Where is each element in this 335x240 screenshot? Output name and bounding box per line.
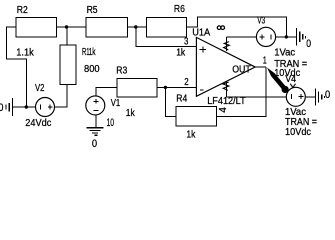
V3 minus tick: [270, 34, 272, 39]
resistor R6: [146, 18, 186, 38]
resistor R4: [176, 106, 217, 126]
svg-text:2: 2: [184, 77, 189, 88]
wire V3 right to ground: [276, 36, 297, 38]
op-amp V- power pin zigzag: [223, 82, 229, 90]
ground symbol right of V3 (net 0): [297, 28, 306, 45]
svg-text:3: 3: [184, 36, 189, 47]
V4 minus tick: [290, 94, 292, 99]
svg-text:V4: V4: [285, 74, 296, 85]
svg-text:R3: R3: [116, 65, 127, 76]
wire R6 right up and over to V3 node: [187, 17, 287, 37]
mouse cursor pointer: [267, 68, 289, 93]
V1 plus sign: [94, 99, 99, 104]
small v mark under V4 label: [290, 84, 295, 88]
junction node dot B R5/R6/pin3: [134, 25, 137, 28]
svg-text:V1: V1: [111, 98, 121, 109]
V3 plus sign: [260, 35, 265, 40]
resistor R2: [16, 18, 57, 38]
svg-text:0: 0: [306, 38, 311, 50]
svg-text:1Vac: 1Vac: [274, 48, 295, 59]
op-amp U1A triangle: [196, 37, 255, 96]
svg-text:V3: V3: [257, 16, 265, 27]
V2 minus tick: [39, 105, 41, 110]
wire R3 right to op-amp pin 2: [157, 86, 197, 88]
wire left ground to V2 minus: [12, 106, 35, 108]
junction node dot C R3/R4/pin2: [164, 86, 167, 89]
svg-text:1: 1: [263, 56, 267, 67]
V4 plus sign: [299, 94, 304, 99]
resistor R1: [60, 45, 76, 85]
wire R1 top to rail node A: [66, 27, 68, 45]
resistor R5: [86, 18, 128, 38]
svg-text:R2: R2: [17, 5, 28, 16]
svg-text:4: 4: [218, 107, 229, 113]
wire V2 plus to R1 bottom: [55, 85, 68, 108]
svg-text:24Vdc: 24Vdc: [25, 118, 51, 129]
svg-text:1.1k: 1.1k: [16, 48, 35, 59]
op-amp V+ power pin zigzag: [224, 42, 230, 50]
svg-text:10: 10: [107, 117, 115, 129]
svg-text:1k: 1k: [126, 108, 136, 119]
junction node dot A R2/R1/R5: [65, 25, 68, 28]
wire V1 bottom to ground: [95, 115, 97, 128]
wire R5 right to R6 left: [128, 26, 147, 28]
junction node dot V3/ground: [285, 35, 288, 38]
resistor R3: [117, 79, 157, 97]
V2 plus sign: [48, 105, 53, 110]
svg-text:0: 0: [325, 89, 330, 101]
svg-text:R6: R6: [174, 4, 185, 15]
wire R2 right to R5 left: [57, 26, 87, 28]
svg-text:OUT: OUT: [232, 64, 251, 75]
junction node dot V2/ground/R2: [25, 105, 28, 108]
wire R3 left to V1 top: [96, 87, 117, 96]
source V1: [86, 96, 105, 115]
svg-text:1k: 1k: [89, 47, 97, 58]
svg-text:10Vdc: 10Vdc: [285, 127, 311, 138]
wire V+ stub into triangle: [226, 37, 228, 51]
svg-text:1k: 1k: [186, 129, 196, 140]
svg-text:V2: V2: [35, 83, 45, 94]
ground symbol below V1 (net 0): [87, 128, 104, 136]
wire R2 left to ground/V2 node: [6, 27, 26, 107]
wire node B down to op-amp pin 3: [136, 27, 197, 47]
svg-text:800: 800: [84, 64, 100, 75]
V1 minus bar: [93, 110, 98, 112]
ground symbol right of V4 (net 0): [315, 88, 324, 105]
source V4: [286, 87, 305, 106]
wire op-amp output to node: [255, 66, 266, 68]
svg-text:0: 0: [0, 102, 3, 114]
svg-text:U1A: U1A: [192, 27, 210, 38]
wire op-amp V+ pin to V3 left: [227, 36, 257, 38]
infinity symbol: [217, 26, 224, 30]
wire node C down to R4 left: [165, 87, 175, 116]
op-amp minus input marker: [200, 89, 203, 91]
svg-text:LF412/LT: LF412/LT: [207, 96, 246, 107]
svg-text:R5: R5: [87, 5, 98, 16]
ground symbol left (net 0): [6, 98, 12, 116]
source V3: [256, 27, 275, 46]
wire V- stub from triangle: [226, 81, 228, 97]
source V2: [36, 98, 55, 117]
svg-text:1k: 1k: [176, 47, 186, 58]
op-amp plus input marker: [200, 46, 206, 52]
wire V4 right to ground: [305, 96, 315, 98]
svg-text:R4: R4: [176, 94, 187, 105]
wire V- pin to V4 left: [227, 96, 287, 98]
svg-text:0: 0: [92, 138, 97, 150]
wire R4 right up to output node: [217, 67, 267, 116]
